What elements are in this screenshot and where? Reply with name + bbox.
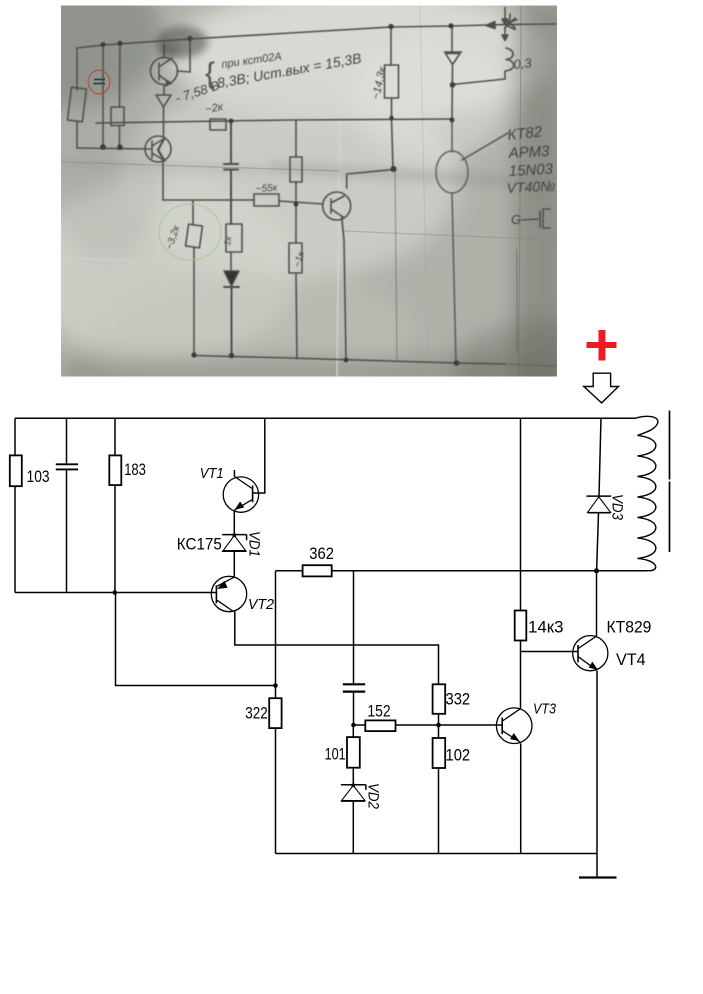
diode (sketch top right) — [445, 26, 462, 119]
wire: VD3 to second rail — [597, 513, 599, 571]
resistor R183 — [109, 455, 121, 485]
wire: VT1 emitter to VD1 — [233, 511, 235, 535]
resistor (sketch 1k vertical) — [226, 224, 242, 252]
wire: VT4 emitter to ground — [596, 671, 598, 878]
svg-text:183: 183 — [124, 461, 146, 479]
wire: VT2 collector down and right to R332 — [235, 612, 439, 685]
node: VD3 / VT4 collector on rail — [594, 568, 599, 573]
wire: down from junction to 322 row — [116, 593, 276, 686]
wire: junction to R101 — [352, 725, 354, 737]
dark smudge on photo — [156, 26, 208, 58]
transistor (sketch T3 mid) — [323, 192, 351, 220]
handwritten annotations on photo — [164, 50, 555, 269]
wire: capacitor C1 branch upper — [66, 418, 68, 463]
svg-text:VD3: VD3 — [609, 494, 626, 521]
ground — [579, 876, 617, 878]
wire: branch to coil — [453, 72, 506, 85]
zener (sketch, dark) — [224, 271, 239, 286]
wire: R152 left lead — [354, 724, 366, 726]
hand-drawn pencil circuit inside photo — [67, 8, 556, 367]
wire: top rail of sketch — [77, 24, 556, 48]
green circle highlight on photo — [159, 204, 221, 260]
wire: R102 to bottom rail — [438, 768, 440, 854]
svg-text:101: 101 — [325, 746, 346, 764]
wire: R101 to VD2 — [352, 768, 354, 785]
resistor (sketch 2k) on mid wire — [210, 119, 226, 130]
wire: second rail from R362 to coil — [332, 570, 648, 572]
transistor (sketch T2) — [145, 136, 171, 162]
wire: VT1 collector stub — [233, 470, 235, 476]
capacitor C2 — [343, 684, 365, 691]
svg-text:322: 322 — [245, 705, 267, 723]
wire: VT3 collector line from top rail through 14k3 — [520, 418, 522, 610]
svg-text:102: 102 — [446, 747, 471, 765]
red circle highlight on photo — [88, 70, 110, 94]
wire: R362 left lead — [276, 570, 303, 572]
svg-text:VD2: VD2 — [365, 783, 382, 810]
resistor R14k3 — [515, 611, 527, 641]
resistor (sketch in green circle) — [186, 224, 203, 248]
transistor VT4 — [573, 636, 608, 671]
wire: top rail — [15, 417, 635, 419]
capacitor (sketch) — [224, 121, 238, 224]
zener diode (sketch) — [156, 95, 171, 122]
wire: 322 to bottom rail — [275, 686, 277, 854]
arrows at top (sketch) — [486, 22, 495, 29]
wire: R332 bottom to junction — [438, 714, 440, 739]
svg-text:362: 362 — [309, 545, 334, 563]
wire: junction to VT3 base — [439, 724, 503, 726]
svg-text:~55к: ~55к — [255, 182, 279, 195]
zener diode VD2 — [341, 784, 366, 801]
wire: right vertical x=391 with resistor — [391, 27, 393, 169]
transistor (sketch T1) — [151, 58, 178, 85]
node: R183 / left rail junction — [113, 590, 118, 595]
resistor (sketch lower right) — [289, 243, 302, 273]
MOSFET circle (sketch) — [436, 151, 468, 193]
wire: VT1 base wire from top rail — [253, 418, 265, 493]
resistor (sketch right of cap) — [290, 157, 302, 182]
wire: VD2 to bottom rail — [352, 801, 354, 853]
zener diode VD1 — [222, 534, 247, 552]
capacitor inside red circle — [94, 80, 106, 84]
resistor R103 — [10, 455, 22, 486]
resistor (sketch 55k horizontal) — [254, 194, 279, 206]
wire: mid horizontal — [96, 119, 452, 123]
wire: cap C2 branch from second rail — [353, 571, 355, 683]
node: R362 lead / R322 junction — [273, 683, 278, 688]
wire: VD3 branch from top rail — [599, 418, 601, 496]
wire: left vertical top — [14, 418, 16, 455]
svg-text:152: 152 — [367, 703, 390, 721]
crease shadow band across middle — [61, 158, 557, 190]
inductor coil — [635, 416, 658, 570]
wire: R183 branch upper — [114, 418, 116, 455]
svg-text:КС175: КС175 — [177, 536, 222, 554]
transistor VT2 — [211, 576, 246, 611]
wire: left vertical bottom — [14, 486, 16, 592]
photo of hand-drawn schematic: paper background — [0, 0, 643, 416]
red plus sign — [587, 330, 617, 361]
svg-text:КТ829: КТ829 — [607, 618, 652, 636]
capacitor C1 — [56, 464, 78, 469]
wire: VT4 collector — [596, 571, 598, 636]
paper creases — [61, 6, 557, 378]
wire: vertical x=116 — [119, 43, 122, 147]
coil 3-shape (sketch) — [505, 48, 514, 71]
resistor R332 — [433, 684, 446, 714]
wire: vertical x=103 — [102, 45, 104, 147]
svg-text:АРМ3: АРМ3 — [507, 143, 550, 162]
hollow down arrow — [584, 373, 619, 403]
wire: VD1 to VT2 emitter — [233, 551, 235, 576]
svg-text:VТ40№: VТ40№ — [506, 177, 555, 196]
wire: bottom-left rail of sketch — [77, 148, 152, 149]
inductor core bars — [669, 411, 671, 553]
resistor (sketch, small vertical) — [111, 107, 124, 126]
wire: bottom rail — [276, 853, 598, 855]
node: C2 / R101 / R152 junction — [351, 723, 356, 728]
node: R152 / R332 / R102 junction — [436, 723, 441, 728]
wire: VT3 emitter to bottom rail — [520, 743, 522, 853]
svg-text:103: 103 — [27, 468, 50, 486]
svg-text:VT3: VT3 — [533, 701, 557, 718]
svg-text:VD1: VD1 — [246, 531, 263, 557]
svg-text:VT4: VT4 — [616, 651, 646, 669]
wire: C2 to junction — [353, 693, 355, 725]
wire: 14k3 to VT3 collector — [520, 641, 522, 709]
wire: R183 branch lower — [114, 485, 116, 592]
wire: left vertical — [76, 48, 78, 148]
junction dots of sketch — [100, 23, 459, 366]
wire: capacitor C1 branch lower — [66, 470, 68, 592]
transistor VT1 — [223, 476, 258, 512]
resistor R152 — [365, 720, 395, 731]
svg-text:G: G — [511, 212, 521, 227]
resistor R102 — [433, 738, 446, 768]
resistor (sketch, left) — [67, 87, 86, 122]
svg-text:332: 332 — [446, 691, 471, 709]
resistor R362 — [303, 565, 332, 576]
wire: bottom-left verticals and rail — [194, 247, 505, 364]
resistor R322 — [269, 698, 281, 728]
wire: R152 right lead to junction — [396, 724, 439, 726]
svg-text:14к3: 14к3 — [528, 618, 564, 636]
diode VD3 — [586, 496, 611, 513]
wire: R362 left lead down — [275, 571, 277, 686]
wire: bottom-left rail to VT2 base — [15, 592, 216, 594]
resistor R101 — [347, 737, 360, 768]
svg-text:VT2: VT2 — [248, 596, 275, 613]
wire: branch to VT4 base — [521, 651, 579, 653]
gate symbol (sketch) — [522, 209, 550, 228]
svg-text:VT1: VT1 — [200, 465, 224, 482]
svg-text:0,3: 0,3 — [513, 55, 533, 72]
transistor VT3 — [496, 708, 532, 744]
